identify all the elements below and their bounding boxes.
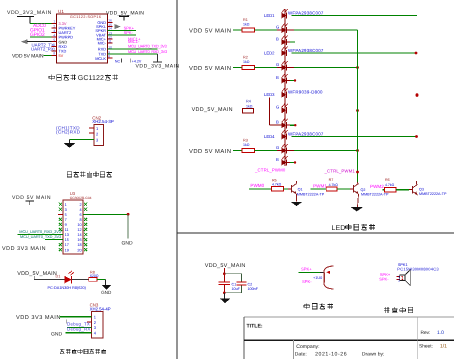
svg-text:VDD 5V MAIN: VDD 5V MAIN [189,28,232,34]
chip U3 GC8002 body [63,191,92,254]
svg-text:1kΩ: 1kΩ [243,143,250,147]
title block Date / Drawn by [295,352,385,358]
power flag VDD_5V_MAIN (U1 top right) [106,10,144,20]
svg-text:VDD 5V MAIN: VDD 5V MAIN [189,66,232,72]
svg-text:3: 3 [53,29,55,33]
U2 no-connect X marks [59,203,87,252]
svg-text:C2: C2 [248,282,253,286]
svg-text:1.0: 1.0 [437,330,444,336]
ground (Q2 emitter) [351,207,363,211]
power flag VDD_5V_MAIN (decoupling) [205,263,246,281]
resistor R4 (unwired) / power label VDD_5V_MAIN [192,99,254,113]
svg-text:LED4: LED4 [264,134,275,139]
svg-text:PC15W30M08004C3: PC15W30M08004C3 [397,266,439,271]
svg-text:Sheet:: Sheet: [419,344,433,350]
wire LED2 anode [292,52,418,55]
wire LED to R8 [72,278,89,280]
net label MCU_UART0_TXD_3V3 / wire [20,234,63,240]
transistor Q1 [292,181,325,202]
power label VDD 3V3 MAIN / wire to CN3 pin1 [16,315,92,324]
transistor cell Q3: net label PWM2, resistor R6, NPN Q3 [370,178,413,192]
net label _CTRL_PWM1 / junction [324,169,359,174]
svg-text:MMBT2222A-TP: MMBT2222A-TP [297,192,325,196]
svg-text:4.7kΩ: 4.7kΩ [385,183,395,187]
svg-text:MMBT2222A-TP: MMBT2222A-TP [361,192,389,196]
wire LED3 anode [416,93,419,96]
svg-text:R2: R2 [243,55,248,59]
svg-text:8: 8 [79,218,81,222]
svg-text:1/1: 1/1 [440,344,447,350]
wire U2 pin4 to GND [83,213,130,239]
+4.2V label [130,59,142,64]
svg-text:4: 4 [79,208,81,212]
svg-text:Date:: Date: [295,352,307,358]
wire U1 pin4 [30,36,57,38]
svg-text:NC: NC [115,59,121,63]
svg-text:2: 2 [53,24,55,28]
svg-text:SPK-: SPK- [379,277,389,282]
wire LED3 B stub [287,124,291,126]
svg-text:G: G [276,145,279,150]
svg-text:G: G [276,24,279,29]
svg-text:VDD_5V_MAIN: VDD_5V_MAIN [192,107,233,113]
svg-text:G: G [276,62,279,67]
svg-text:9: 9 [65,223,67,227]
svg-text:U1: U1 [58,9,64,14]
svg-text:LED1: LED1 [264,13,275,18]
svg-text:VDD 5V MAIN: VDD 5V MAIN [189,149,232,155]
svg-text:LED2: LED2 [264,51,275,56]
arrow into speaker pad [326,271,330,274]
wire LED3 cathode loop [269,97,281,125]
svg-text:12: 12 [77,228,81,232]
title block Sheet [419,344,447,350]
connector CN2 XH2.54-3P [92,115,114,145]
svg-text:MCU_UART0_RXD_3V3: MCU_UART0_RXD_3V3 [128,49,167,54]
svg-text:17: 17 [65,243,69,247]
svg-text:GC1122: GC1122 [78,75,104,82]
svg-text:15: 15 [65,238,69,242]
svg-text:7: 7 [65,218,67,222]
wire LED1 B stub [287,41,291,43]
svg-text:GND: GND [51,331,63,337]
svg-text:8: 8 [108,55,110,59]
resistor R3 row / power label [189,138,278,155]
U2 pin stub left row3 [58,213,63,215]
svg-text:14: 14 [77,233,81,237]
svg-text:GC8002B-G04: GC8002B-G04 [70,196,92,200]
wire CN2 pin3 to ground [69,139,94,143]
power label VDD 5V MAIN (U1 5V pin) [12,53,57,59]
svg-text:PWM0: PWM0 [250,183,264,188]
caption speaker output [384,307,413,313]
svg-text:Company:: Company: [296,344,319,350]
speaker LS1 designator / part number [397,262,439,271]
net label Debug_RX / wire [66,327,92,333]
junction LED3 G [356,109,359,112]
svg-text:11: 11 [108,39,112,43]
junction dots right of LED anode wires [416,94,419,97]
svg-text:4.7kΩ: 4.7kΩ [272,182,282,186]
svg-text:11: 11 [65,228,69,232]
net label MCU_UART0_RXD_3V3 / wire [18,229,63,235]
wire LED4 G / junction [277,149,359,152]
svg-text:5V: 5V [59,53,64,58]
svg-text:2021-10-26: 2021-10-26 [315,352,347,358]
resistor R2 row / power label [189,55,278,72]
no-connect NC label [115,59,122,64]
LED LED3 package (R,G,B diodes) [264,88,323,128]
U1 left pin names [59,21,76,58]
svg-text:5: 5 [53,38,55,42]
caption programming debug port [60,349,106,354]
svg-text:VDD 5V MAIN: VDD 5V MAIN [12,195,51,201]
svg-text:R6: R6 [385,178,390,182]
svg-text:8: 8 [53,52,55,56]
svg-text:20: 20 [77,248,81,252]
capacitor C1 10uF [218,282,240,293]
svg-text:VDD 3V3 MAIN: VDD 3V3 MAIN [16,315,61,321]
svg-text:4.7kΩ: 4.7kΩ [329,183,339,187]
transistor cell Q2: net label PWM1, resistor R7, NPN Q2 [311,178,354,191]
svg-text:PWM2: PWM2 [370,184,384,189]
resistor R1 row / power label [189,18,278,35]
svg-text:7: 7 [53,47,55,51]
svg-text:C1: C1 [232,282,237,286]
power flag VDD_3V3_MAIN (right of U1) [136,54,180,70]
power flag VDD 5V MAIN (U2) [12,195,51,205]
svg-text:SPK+: SPK+ [301,266,312,271]
svg-text:D1: D1 [56,275,61,279]
svg-text:B: B [276,120,279,125]
svg-text:1: 1 [65,203,67,207]
svg-text:B: B [276,75,279,80]
svg-text:+4.2V: +4.2V [132,60,142,64]
svg-text:MMBT2222A-TP: MMBT2222A-TP [419,192,447,196]
transistor Q2 [354,182,389,207]
capacitor C2 100nF [237,282,259,291]
svg-text:2: 2 [398,279,400,283]
wire SPK+ / net label [108,26,137,31]
ground (Q1 emitter) [291,202,303,206]
svg-text:(CH2)RXD: (CH2)RXD [56,130,81,135]
svg-text:GND: GND [101,290,112,295]
op module U1 GC1122 body [57,9,108,63]
svg-text:19: 19 [65,248,69,252]
svg-text:GC1122-SOP16: GC1122-SOP16 [70,15,101,19]
wire to LED D1 [34,278,64,280]
svg-text:B: B [276,36,279,41]
svg-text:UART2_RX: UART2_RX [31,47,54,52]
wire MCU_UART0_TXD_3V3 [108,43,167,49]
ground arrow into U1 GND pin [21,39,57,44]
svg-text:3: 3 [65,208,67,212]
wire LED1 G to collector bus [277,29,358,31]
ground (LED indicator) [101,285,112,295]
wire R8 to ground [97,279,105,285]
U2 pin numbers [65,203,82,252]
svg-text:Q1: Q1 [298,187,303,191]
svg-text:Drawn by:: Drawn by: [362,352,385,358]
svg-text:R3: R3 [243,138,248,142]
svg-text:R4: R4 [246,99,251,103]
ground (CN2) [64,143,76,148]
svg-text:PC-DA1N30H R8(620): PC-DA1N30H R8(620) [48,286,87,290]
svg-text:WFPA2938C007: WFPA2938C007 [288,10,324,15]
CN3 pin numbers and stubs [87,314,97,335]
svg-text:SPK-: SPK- [302,279,312,284]
svg-text:+1U0: +1U0 [313,276,322,280]
svg-text:1: 1 [53,20,55,24]
caption speaker test [304,303,333,309]
transistor cell Q1: net label PWM0, resistor R5, NPN Q1 [249,178,292,191]
svg-text:TITLE:: TITLE: [247,324,263,330]
svg-text:Debug_RX: Debug_RX [67,327,91,332]
svg-text:VDD_5V_MAIN: VDD_5V_MAIN [106,10,144,16]
svg-text:VDD_3V3_MAIN: VDD_3V3_MAIN [7,10,52,16]
svg-text:2: 2 [79,203,81,207]
svg-text:R7: R7 [329,178,334,182]
CN2 pin stubs [89,128,94,139]
LED D1 [56,271,75,284]
svg-text:LED: LED [332,225,346,232]
svg-text:PWM1: PWM1 [313,183,327,188]
svg-text:WFPA2938C007: WFPA2938C007 [288,131,324,136]
wire cap branch [223,274,242,294]
net label Debug_TX / wire [67,322,92,328]
LED LED4 package (R,G,B diodes) [264,130,324,166]
svg-text:VDD_5V_MAIN: VDD_5V_MAIN [17,271,57,277]
caption dual serial port [67,172,112,177]
connector CN3 XH2.54-4P [90,302,111,338]
wire SPK- / net label [108,30,137,35]
resistor R8 [89,270,99,281]
svg-text:1kΩ: 1kΩ [243,23,250,27]
caption LED driver circuit [332,224,376,232]
caption GC1122 module [49,75,118,83]
svg-text:1kΩ: 1kΩ [246,104,253,108]
wire LED2 B stub / junction [287,79,297,81]
svg-text:10: 10 [77,223,81,227]
speaker pad: net label SPK+ / wire [299,266,325,272]
svg-text:VDD_3V3_MAIN: VDD_3V3_MAIN [136,64,180,70]
transistor Q3 [413,181,447,196]
svg-text:MCU_UART0_TXD_3V3: MCU_UART0_TXD_3V3 [20,234,61,239]
svg-text:_CTRL_PWM1: _CTRL_PWM1 [324,169,356,174]
svg-text:GND: GND [121,241,133,247]
svg-text:MIC-: MIC- [98,41,107,46]
svg-text:Q3: Q3 [419,187,424,191]
wire LED2 G / junction [277,66,359,69]
svg-text:MCLK: MCLK [95,56,106,61]
svg-text:_CTRL_PWM0: _CTRL_PWM0 [254,168,286,173]
svg-text:4: 4 [53,33,55,37]
title block frame [244,317,454,359]
wire MCU_UART0_RXD_3V3 [108,49,168,54]
title block Rev [421,330,445,336]
svg-text:MCU_UART0_TXD_3V3: MCU_UART0_TXD_3V3 [128,43,167,48]
wire LED4 B stub / junction [287,161,297,163]
svg-text:6: 6 [53,43,55,47]
svg-text:WFR9039-D800: WFR9039-D800 [288,90,323,95]
svg-text:13: 13 [65,233,69,237]
svg-text:G: G [276,105,279,110]
svg-text:10uF: 10uF [232,287,241,291]
svg-text:B: B [276,157,279,162]
svg-text:WFPA2938C007: WFPA2938C007 [288,48,324,53]
svg-text:18: 18 [77,243,81,247]
LED chain wire (vertical) [284,9,286,166]
U1 right pin stubs [108,19,113,59]
power flag VDD_3V3_MAIN (top left) [7,10,52,23]
speaker LS1 symbol [397,270,411,286]
svg-text:100nF: 100nF [248,287,259,291]
svg-text:1kΩ: 1kΩ [243,60,250,64]
svg-text:6: 6 [79,213,81,217]
speaker pad bracket symbol [324,266,333,289]
svg-text:XH2.54-4P: XH2.54-4P [90,307,111,312]
U1 left pin stubs [52,20,57,56]
svg-text:VDD 5V MAIN: VDD 5V MAIN [12,53,44,59]
svg-text:R1: R1 [243,18,248,22]
wire U1 pin1 3.3V [30,22,57,24]
U1 right pin names [95,20,107,61]
power flag VDD_5V_MAIN (LED indicator) [17,271,57,279]
collector bus wire (vertical green) [357,30,359,182]
svg-text:5: 5 [65,213,67,217]
ground (decoupling) [220,293,231,303]
LED LED2 package (R,G,B diodes) [264,47,324,84]
svg-text:16: 16 [77,238,81,242]
svg-text:LED3: LED3 [264,92,275,97]
svg-text:SPK-: SPK- [124,30,134,35]
svg-text:XH2.54-3P: XH2.54-3P [92,119,114,124]
svg-text:VDD 3V3 MAIN: VDD 3V3 MAIN [2,246,46,252]
svg-text:VDD_5V_MAIN: VDD_5V_MAIN [205,263,246,269]
wire LED4 anode [292,135,418,138]
svg-text:Rev:: Rev: [421,330,431,336]
wire LED1 anode [292,15,418,17]
section divider horizontal [177,232,454,234]
section divider vertical [176,0,178,359]
LED LED1 package (R,G,B diodes) [264,9,324,45]
arrow out of U1 pin 15 [115,24,121,29]
